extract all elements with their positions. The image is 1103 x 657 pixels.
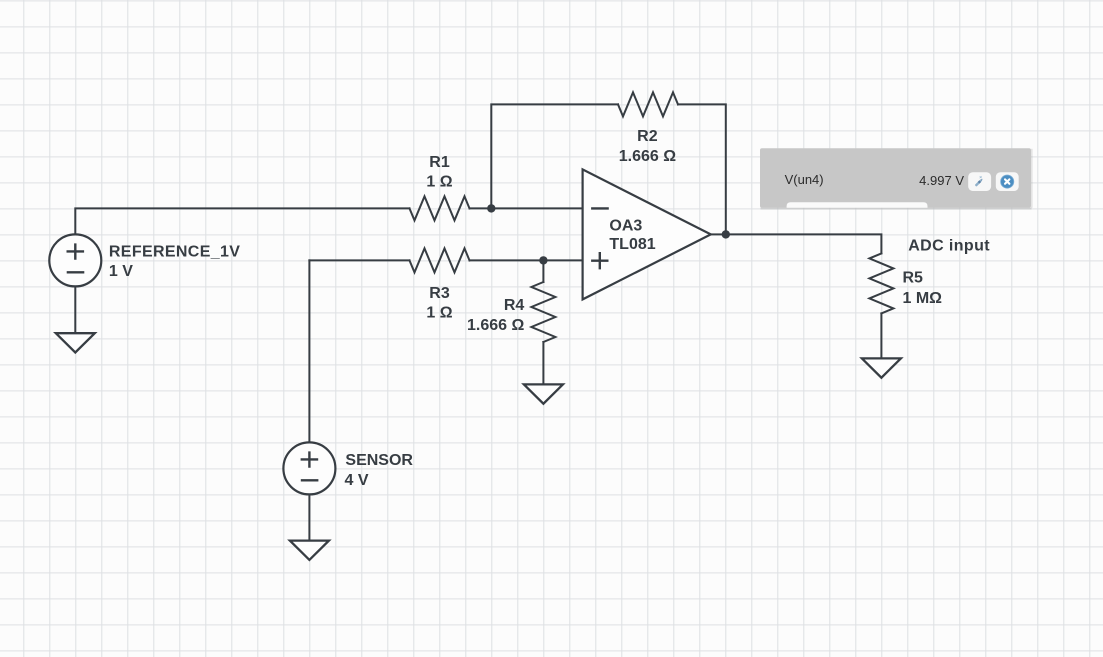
svg-text:1 MΩ: 1 MΩ <box>903 290 943 307</box>
svg-text:R1: R1 <box>429 154 450 171</box>
wire SENSOR bottom to ground <box>308 494 310 540</box>
resistor R5 <box>869 253 893 313</box>
wire R3 row: corner to R3 <box>309 259 409 261</box>
op-amp plus symbol <box>591 252 608 269</box>
node dot (R1 / feedback junction) <box>487 204 495 212</box>
wire feedback right vertical to output node <box>678 104 726 234</box>
close icon: blue circle with white cross <box>1001 175 1014 188</box>
svg-text:R3: R3 <box>429 285 450 302</box>
op-amp output lead <box>711 233 726 235</box>
svg-text:1 Ω: 1 Ω <box>426 304 452 321</box>
wire from SENSOR up to R3 row <box>308 260 310 442</box>
probe overlay panel <box>760 148 1033 209</box>
wire output to ADC corner and down to R5 <box>726 234 882 253</box>
svg-text:1.666 Ω: 1.666 Ω <box>619 148 676 165</box>
op-amp minus symbol <box>591 207 609 209</box>
edit (pencil) button <box>968 172 991 191</box>
resistor R2 <box>618 92 678 116</box>
ground (REFERENCE_1V) <box>56 333 95 352</box>
wire R4 bottom to ground <box>542 342 544 384</box>
resistor R1 <box>410 196 470 220</box>
svg-text:1.666 Ω: 1.666 Ω <box>467 317 524 334</box>
svg-text:1 Ω: 1 Ω <box>426 173 452 190</box>
svg-text:R5: R5 <box>903 270 924 287</box>
node dot (output junction) <box>722 230 730 238</box>
svg-text:4 V: 4 V <box>345 472 369 489</box>
svg-text:TL081: TL081 <box>609 236 655 253</box>
ground (SENSOR) <box>290 541 329 560</box>
white tooltip top edge clipped at panel bottom <box>787 202 928 207</box>
svg-text:1 V: 1 V <box>109 263 133 280</box>
wire R5 bottom to ground <box>880 313 882 358</box>
resistor R3 <box>410 248 470 272</box>
wire node to R4 top <box>542 260 544 282</box>
wire REFERENCE_1V bottom to ground <box>74 286 76 333</box>
op-amp OA3 triangle <box>583 169 711 299</box>
pencil icon <box>972 174 984 186</box>
wire from R1 to op-amp inverting input <box>470 207 583 209</box>
voltage source SENSOR <box>283 442 335 494</box>
svg-text:4.997 V: 4.997 V <box>919 173 964 188</box>
ground (R5) <box>862 358 901 377</box>
svg-text:V(un4): V(un4) <box>785 172 824 187</box>
voltage source REFERENCE_1V <box>49 234 101 286</box>
svg-text:OA3: OA3 <box>609 217 642 234</box>
svg-text:REFERENCE_1V: REFERENCE_1V <box>109 243 240 260</box>
svg-text:ADC input: ADC input <box>908 238 990 255</box>
resistor R4 <box>531 282 555 342</box>
close button <box>996 172 1019 191</box>
wire from REFERENCE_1V top to R1 (net at y=208.4) <box>75 208 409 234</box>
wire from R3 to op-amp non-inverting input <box>470 259 583 261</box>
svg-text:R4: R4 <box>504 297 525 314</box>
svg-text:SENSOR: SENSOR <box>345 452 413 469</box>
wire feedback left vertical <box>491 104 618 208</box>
ground (R4) <box>524 384 563 403</box>
svg-text:R2: R2 <box>637 128 658 145</box>
node dot (R3 / R4 junction) <box>539 256 547 264</box>
